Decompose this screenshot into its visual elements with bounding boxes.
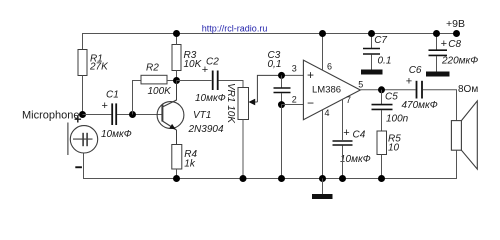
wire pin3	[282, 74, 304, 76]
wire C6 to speaker	[423, 90, 457, 121]
transistor VT1	[157, 81, 184, 145]
svg-text:0,1: 0,1	[268, 59, 282, 70]
wire VR1 bottom to rail	[242, 120, 244, 179]
wire pin4	[322, 110, 324, 179]
svg-text:6: 6	[327, 61, 332, 71]
VR1 wiper	[249, 75, 282, 105]
svg-text:C5: C5	[385, 91, 398, 102]
wire pin5 output	[360, 89, 415, 91]
node pin2 ground rail	[278, 175, 285, 182]
capacitor C5	[372, 90, 393, 131]
svg-text:VR1 10K: VR1 10K	[225, 83, 236, 124]
potentiometer VR1	[238, 88, 249, 120]
svg-text:5: 5	[358, 79, 363, 89]
capacitor C1	[112, 103, 116, 125]
wire collector node to C2	[177, 80, 212, 82]
node C4 ground rail	[339, 175, 346, 182]
svg-text:100K: 100K	[148, 86, 173, 97]
svg-text:10мкФ: 10мкФ	[101, 129, 132, 140]
node output junction	[378, 86, 385, 93]
svg-text:+: +	[202, 64, 208, 76]
node R3 top rail	[173, 30, 180, 37]
wire C1 to base node	[117, 114, 162, 116]
svg-text:470мкФ: 470мкФ	[402, 100, 438, 111]
svg-text:+: +	[343, 127, 349, 139]
wire C4 bottom to rail	[342, 146, 344, 179]
capacitor C8	[426, 34, 450, 77]
svg-text:+: +	[441, 38, 447, 50]
wire R1 bottom to mic node	[82, 76, 84, 115]
svg-text:8Ом: 8Ом	[458, 84, 478, 95]
wire R4 bottom to rail	[176, 169, 178, 179]
capacitor C2	[213, 71, 218, 91]
wire R3 top to rail	[176, 34, 178, 45]
wire R3 bottom to collector node	[176, 71, 178, 81]
svg-text:−: −	[307, 96, 314, 110]
microphone MK1	[68, 123, 98, 156]
svg-text:C6: C6	[409, 65, 422, 76]
node VR1 ground rail	[240, 175, 247, 182]
node pin4 rail	[319, 175, 326, 182]
capacitor C3	[274, 75, 291, 92]
svg-text:+: +	[307, 68, 314, 82]
svg-text:LM386: LM386	[312, 85, 341, 96]
capacitor C4	[333, 141, 353, 145]
wire mic node to C1	[83, 114, 112, 116]
node R4 ground rail	[173, 175, 180, 182]
resistor R2	[141, 75, 167, 84]
svg-text:4: 4	[325, 108, 330, 118]
svg-text:+: +	[102, 100, 108, 112]
svg-text:VT1: VT1	[193, 110, 211, 121]
node pin2 junction	[278, 101, 285, 108]
ground symbol	[312, 179, 333, 200]
svg-text:7: 7	[346, 95, 351, 105]
label mic polarity -	[75, 166, 82, 168]
svg-text:27K: 27K	[89, 62, 109, 73]
svg-text:0.1: 0.1	[378, 56, 392, 67]
wire R5 bottom to rail	[381, 155, 383, 179]
speaker BA1	[451, 101, 477, 179]
node pin6 rail	[319, 30, 326, 37]
svg-text:10: 10	[388, 143, 400, 154]
resistor R4	[172, 145, 182, 170]
capacitor C7	[361, 34, 383, 75]
svg-text:C1: C1	[106, 89, 119, 100]
svg-text:C7: C7	[374, 35, 387, 46]
resistor R3	[172, 45, 181, 71]
resistor R5	[377, 131, 387, 155]
node base junction	[129, 111, 136, 118]
svg-text:220мкФ: 220мкФ	[441, 56, 478, 67]
svg-text:http://rcl-radio.ru: http://rcl-radio.ru	[202, 24, 268, 34]
svg-text:R2: R2	[146, 62, 159, 73]
node C8 rail	[433, 30, 440, 37]
wire bottom rail	[84, 153, 458, 179]
wire base node up to R2	[133, 81, 142, 115]
wire C3 bottom to pin2 node	[281, 93, 283, 105]
svg-text:100n: 100n	[386, 113, 409, 124]
svg-text:+9В: +9В	[446, 18, 465, 30]
capacitor C6	[417, 81, 423, 99]
svg-text:C8: C8	[448, 39, 461, 50]
wire top rail	[83, 34, 457, 50]
resistor R1	[78, 50, 87, 76]
svg-text:10мкФ: 10мкФ	[340, 154, 371, 165]
svg-text:2: 2	[292, 94, 297, 104]
svg-text:Microphone: Microphone	[22, 109, 79, 121]
node +9V terminal	[453, 30, 460, 37]
svg-text:10мкФ: 10мкФ	[195, 93, 226, 104]
wire R2 to collector node	[167, 80, 177, 82]
node C7 rail	[368, 30, 375, 37]
svg-text:3: 3	[292, 63, 297, 73]
svg-text:2N3904: 2N3904	[188, 124, 224, 135]
svg-text:+: +	[74, 112, 82, 127]
svg-text:C4: C4	[353, 130, 366, 141]
node R5 ground rail	[378, 175, 385, 182]
wire C2 to VR1 top	[219, 81, 244, 88]
wire pin6	[322, 34, 324, 71]
wire pin2 node to ground rail	[281, 105, 283, 179]
svg-text:10K: 10K	[184, 59, 203, 70]
wire pin7	[342, 99, 344, 140]
node collector junction	[173, 77, 180, 84]
svg-text:+: +	[406, 75, 412, 87]
svg-text:1k: 1k	[184, 158, 196, 169]
node mic/C1 junction	[79, 111, 86, 118]
node pin3 junction	[278, 72, 285, 79]
wire pin2	[282, 104, 304, 106]
op-amp U1 LM386	[303, 60, 360, 119]
